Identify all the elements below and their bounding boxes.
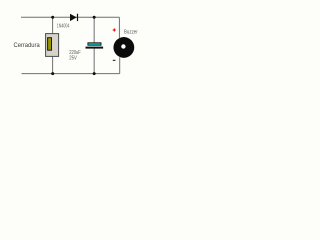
node junction top-middle [93, 16, 96, 19]
svg-text:Cerradura: Cerradura [14, 42, 40, 49]
wire buzzer top pin [118, 17, 120, 38]
wire top horizontal [21, 16, 119, 18]
wire bottom horizontal [22, 73, 120, 75]
node junction bottom-middle [93, 72, 96, 75]
wire lock bottom pin [52, 56, 54, 74]
buzzer minus mark [113, 60, 116, 61]
svg-text:25V: 25V [69, 56, 77, 62]
capacitor C1 (electrolytic) [86, 43, 104, 49]
wire capacitor top pin [93, 17, 95, 43]
node junction bottom-left [51, 72, 54, 75]
lock (solenoid) Cerradura [46, 34, 59, 57]
node junction top-left [51, 16, 54, 19]
svg-text:1N4004: 1N4004 [57, 24, 70, 30]
wire buzzer bottom pin [119, 57, 121, 73]
diode D1 1N4004 [70, 14, 78, 21]
wire capacitor bottom pin [93, 48, 95, 74]
buzzer plus mark [113, 28, 116, 31]
svg-text:Buzzer: Buzzer [124, 30, 138, 36]
wire lock top pin [52, 17, 54, 34]
background [0, 0, 150, 91]
buzzer BZ1 [113, 37, 134, 58]
